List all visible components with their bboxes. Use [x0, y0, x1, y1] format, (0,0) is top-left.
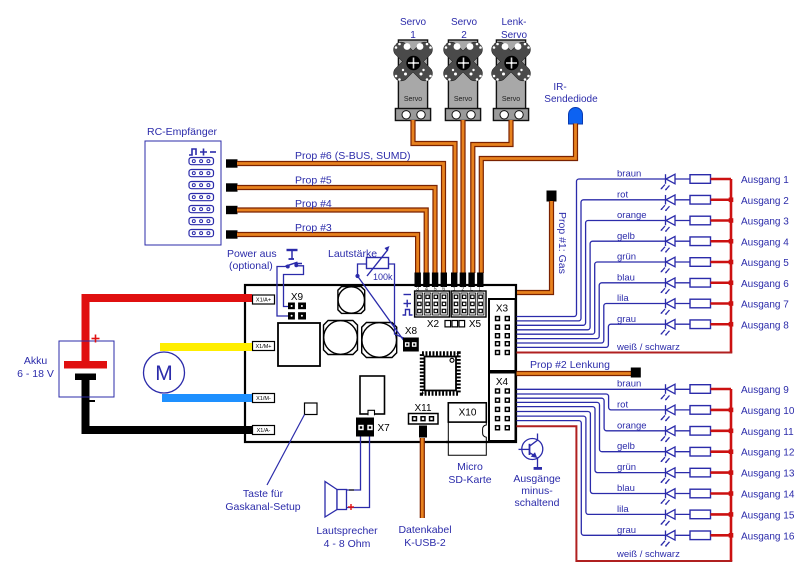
svg-text:Datenkabel: Datenkabel [398, 524, 451, 536]
wire R7 to bus [711, 302, 732, 305]
svg-text:6 - 18 V: 6 - 18 V [17, 368, 54, 380]
wire R11 to bus [711, 429, 732, 432]
servo SV1 (Servo 1) [391, 39, 435, 120]
plug Prop #2 [631, 368, 641, 378]
svg-text:X10: X10 [459, 408, 477, 419]
wire Prop #3 to header [237, 235, 418, 274]
label Lautsprecher 4 - 8 Ohm [316, 525, 378, 550]
junction bus row 3 [729, 218, 734, 223]
wire Prop #2 Lenkung [515, 371, 631, 376]
wire switch to X9 lower pin [277, 267, 288, 317]
plug Prop #1 [547, 191, 557, 202]
connector X9 [288, 303, 306, 320]
label Akku 6 - 18 V [17, 355, 54, 380]
wire servo 1 to X5 pin 1 [413, 120, 455, 273]
wire X3 to Ausgang 5 (grun) [517, 262, 691, 334]
connector X5 [451, 291, 486, 317]
LED D5 [661, 257, 675, 273]
junction bus row 11 [729, 429, 734, 434]
RC receiver box [145, 141, 221, 245]
plug K-USB-2 [419, 426, 427, 438]
resistor R2 [690, 195, 711, 204]
svg-text:grün: grün [617, 252, 636, 263]
three DIP squares [445, 321, 465, 327]
svg-text:RC-Empfänger: RC-Empfänger [147, 126, 218, 138]
wire servo 2 to X5 pin 2 [460, 120, 465, 273]
servo plug Prop #4 [226, 206, 238, 214]
servo plug Prop #3 [226, 230, 238, 238]
wire R15 to bus [711, 513, 732, 516]
svg-text:4 - 8 Ohm: 4 - 8 Ohm [324, 538, 371, 550]
svg-text:Servo: Servo [502, 96, 520, 103]
bus return group 2 [517, 389, 733, 561]
wire X3 to Ausgang 8 (grau) [517, 324, 691, 347]
svg-text:Ausgang 1: Ausgang 1 [741, 175, 789, 186]
svg-text:lila: lila [617, 293, 629, 304]
potentiometer R-Lautstärke 100k [367, 246, 390, 276]
wire Lenk-Servo to X5 pin L [473, 120, 511, 273]
svg-text:Ausgang 9: Ausgang 9 [741, 385, 789, 396]
svg-text:orange: orange [617, 420, 647, 431]
pin numbers 3 4 5 6 1 2 L L [416, 287, 482, 293]
junction bus row 12 [729, 449, 734, 454]
battery plus plate [64, 361, 107, 369]
power module U2 [278, 323, 320, 366]
LED D15 [661, 510, 675, 526]
wire battery minus to X1/A- (black) [86, 376, 253, 430]
wire X3 to Ausgang 4 (gelb) [517, 241, 691, 330]
svg-text:Ausgänge: Ausgänge [513, 473, 560, 485]
capacitor C2 [324, 321, 358, 355]
svg-text:Ausgang 12: Ausgang 12 [741, 448, 795, 459]
connector X2 [415, 291, 450, 317]
wire motor to X1/M- (blue) [162, 394, 252, 402]
wire R3 to bus [711, 219, 732, 222]
battery minus plate [75, 374, 96, 381]
LED D8 [661, 319, 675, 335]
servo plug row on X2/X5 header [415, 273, 484, 288]
junction bus row 7 [729, 301, 734, 306]
wire X7 to speaker minus [347, 437, 361, 491]
svg-text:grün: grün [617, 462, 636, 473]
wire R5 to bus [711, 261, 732, 264]
wire R10 to bus [711, 409, 732, 412]
svg-text:X7: X7 [378, 423, 391, 434]
LED D12 [661, 447, 675, 463]
microcontroller U1 [422, 354, 459, 394]
svg-text:Micro: Micro [457, 461, 483, 473]
connector X10 [448, 403, 486, 422]
terminal X1/M- [253, 394, 275, 403]
header polarity symbols - + pulse [403, 295, 413, 316]
wire X4 to Ausgang 11 (orange) [517, 398, 691, 431]
wire X4 to Ausgang 12 (gelb) [517, 402, 691, 451]
resistor R3 [690, 216, 711, 225]
svg-text:Servo: Servo [454, 96, 472, 103]
LED D14 [661, 489, 675, 505]
label Taste für Gaskanal-Setup [225, 488, 300, 513]
svg-text:Ausgang 13: Ausgang 13 [741, 469, 795, 480]
wire X4 to Ausgang 13 (grun) [517, 407, 691, 473]
wire pot left lead [358, 264, 367, 276]
svg-text:Sendediode: Sendediode [544, 94, 598, 105]
svg-text:X4: X4 [496, 377, 509, 388]
junction pot-left [355, 274, 359, 278]
svg-text:X1/M-: X1/M- [256, 396, 271, 402]
label Power aus (optional) [227, 248, 277, 272]
bus return group 1 [517, 179, 733, 353]
RC receiver channel sockets [189, 158, 214, 237]
connector X7 [356, 418, 374, 437]
LED D10 [661, 405, 675, 421]
svg-text:Ausgang 16: Ausgang 16 [741, 531, 795, 542]
svg-text:Gaskanal-Setup: Gaskanal-Setup [225, 501, 300, 513]
svg-text:gelb: gelb [617, 441, 635, 452]
label Ausgänge minus-schaltend [513, 473, 560, 509]
LED D2 [661, 195, 675, 211]
wire X4 to Ausgang 15 (lila) [517, 416, 691, 514]
terminal X1/M+ [253, 342, 275, 351]
svg-text:X8: X8 [405, 326, 418, 337]
svg-text:X3: X3 [496, 304, 509, 315]
ground symbol [534, 467, 542, 470]
svg-text:X5: X5 [469, 319, 482, 330]
resistor R11 [690, 427, 711, 436]
svg-text:100k: 100k [373, 272, 393, 282]
wire IR-Sendediode to X5 pin L [481, 124, 575, 274]
svg-text:Ausgang 10: Ausgang 10 [741, 406, 795, 417]
callout line Taste [267, 415, 305, 486]
LED D6 [661, 278, 675, 294]
wire Prop #6 to header [237, 164, 444, 274]
svg-text:rot: rot [617, 399, 628, 410]
svg-text:Taste für: Taste für [243, 488, 284, 500]
label Lenk-Servo [501, 17, 528, 41]
wire X4 to Ausgang 9 (braun) [517, 388, 691, 390]
svg-text:Power aus: Power aus [227, 248, 277, 260]
svg-text:SD-Karte: SD-Karte [448, 474, 491, 486]
wire X4 to Ausgang 16 (grau) [517, 421, 691, 536]
svg-text:X9: X9 [291, 292, 304, 303]
wire R16 to bus [711, 534, 732, 537]
resistor R8 [690, 320, 711, 329]
svg-text:orange: orange [617, 210, 647, 221]
terminal X1/A+ [253, 295, 275, 304]
resistor R1 [690, 175, 711, 184]
wire R12 to bus [711, 450, 732, 453]
svg-text:Ausgang 8: Ausgang 8 [741, 320, 789, 331]
svg-text:Ausgang 5: Ausgang 5 [741, 258, 789, 269]
wire pot to X8 pin 1 [358, 276, 405, 342]
svg-text:Servo: Servo [400, 17, 427, 28]
terminal X1/A- [253, 426, 275, 435]
wire Datenkabel K-USB-2 [420, 438, 425, 518]
svg-text:lila: lila [617, 504, 629, 515]
wire X4 to Ausgang 14 (blau) [517, 412, 691, 494]
LED D13 [661, 468, 675, 484]
speaker plus mark [348, 504, 354, 510]
svg-text:grau: grau [617, 525, 636, 536]
battery minus sign [89, 400, 96, 402]
svg-text:Prop #4: Prop #4 [295, 198, 332, 210]
svg-text:weiß / schwarz: weiß / schwarz [616, 342, 680, 353]
resistor R4 [690, 237, 711, 246]
wire pot to X8 pin 2 [389, 264, 412, 342]
svg-text:gelb: gelb [617, 231, 635, 242]
wire X3 to Ausgang 6 (blau) [517, 283, 691, 339]
label Datenkabel K-USB-2 [398, 524, 451, 549]
resistor R5 [690, 258, 711, 267]
pushbutton Taste [305, 403, 318, 415]
LED D11 [661, 426, 675, 442]
junction bus row 2 [729, 197, 734, 202]
speaker minus mark [349, 489, 354, 491]
svg-text:Akku: Akku [24, 355, 48, 367]
svg-text:Ausgang 3: Ausgang 3 [741, 217, 789, 228]
LED IR-Sendediode [569, 108, 583, 125]
wire R8 to bus [711, 323, 732, 326]
switch S1 Power aus [286, 250, 303, 268]
wire R2 to bus [711, 198, 732, 201]
resistor R10 [690, 406, 711, 415]
LED D1 [661, 174, 675, 190]
transistor Q1 (Ausgänge minus-schaltend) [519, 434, 543, 468]
LED D9 [661, 384, 675, 400]
svg-text:Prop #2 Lenkung: Prop #2 Lenkung [530, 359, 610, 371]
servo plug Prop #5 [226, 183, 238, 191]
svg-text:Ausgang 14: Ausgang 14 [741, 490, 795, 501]
resistor R6 [690, 278, 711, 287]
label Servo 1 [400, 17, 427, 41]
svg-text:Ausgang 4: Ausgang 4 [741, 237, 789, 248]
svg-text:Servo: Servo [404, 96, 422, 103]
wire X3 to Ausgang 7 (lila) [517, 304, 691, 344]
capacitor C1 [338, 287, 365, 314]
main controller board outline [245, 285, 516, 442]
svg-text:minus-: minus- [521, 485, 553, 497]
label Micro SD-Karte [448, 461, 491, 486]
connector X4 [489, 373, 516, 442]
resistor R16 [690, 531, 711, 540]
svg-text:Prop #1: Gas: Prop #1: Gas [556, 212, 568, 274]
wire Prop #5 to header [237, 188, 435, 274]
svg-text:M: M [155, 362, 173, 385]
junction bus row 16 [729, 533, 734, 538]
capacitor C3 [362, 323, 397, 358]
svg-text:X1/A+: X1/A+ [256, 298, 271, 304]
battery plus sign [92, 335, 100, 343]
resistor R14 [690, 489, 711, 498]
junction bus row 6 [729, 280, 734, 285]
wire R14 to bus [711, 492, 732, 495]
svg-text:grau: grau [617, 314, 636, 325]
svg-text:Ausgang 11: Ausgang 11 [741, 427, 794, 438]
servo plug Prop #6 [226, 159, 238, 167]
svg-text:Prop #3: Prop #3 [295, 222, 332, 234]
wire R1 to bus [711, 178, 732, 181]
servo SV3 (Lenk-Servo) [489, 39, 533, 120]
svg-text:Lautsprecher: Lautsprecher [316, 525, 378, 537]
connector X11 [409, 414, 439, 425]
wire R6 to bus [711, 281, 732, 284]
resistor R7 [690, 299, 711, 308]
svg-text:blau: blau [617, 272, 635, 283]
resistor R13 [690, 468, 711, 477]
svg-text:rot: rot [617, 189, 628, 200]
speaker LS1 [325, 482, 347, 518]
battery Akku box [59, 341, 114, 397]
label IR-Sendediode [544, 82, 598, 105]
wire X4 to Ausgang 10 (rot) [517, 394, 691, 410]
svg-text:IR-: IR- [553, 82, 566, 93]
wire motor to X1/M+ (yellow) [160, 343, 252, 351]
resistor R12 [690, 447, 711, 456]
wire R4 to bus [711, 240, 732, 243]
LED D4 [661, 236, 675, 252]
wire X7 to speaker plus [347, 437, 370, 508]
junction bus row 10 [729, 408, 734, 413]
wire X3 to Ausgang 1 (braun) [517, 179, 691, 317]
motor M1 [144, 352, 185, 393]
junction bus row 14 [729, 491, 734, 496]
svg-text:X1/A-: X1/A- [257, 428, 271, 434]
resistor R9 [690, 385, 711, 394]
wire Prop #1 Gas [517, 201, 552, 293]
connector X8 [403, 338, 419, 352]
wire Prop #4 to header [237, 210, 426, 273]
junction bus row 5 [729, 260, 734, 265]
svg-text:braun: braun [617, 379, 641, 390]
svg-text:(optional): (optional) [229, 260, 273, 272]
wire X3 to Ausgang 3 (orange) [517, 221, 691, 326]
svg-text:Ausgang 2: Ausgang 2 [741, 196, 789, 207]
svg-text:Servo: Servo [451, 17, 478, 28]
wire X3 to Ausgang 2 (rot) [517, 200, 691, 321]
svg-text:K-USB-2: K-USB-2 [404, 537, 446, 549]
svg-text:X1/M+: X1/M+ [255, 344, 271, 350]
resistor R15 [690, 510, 711, 519]
svg-text:blau: blau [617, 483, 635, 494]
junction bus row 13 [729, 470, 734, 475]
svg-text:X11: X11 [414, 403, 431, 414]
svg-text:Lenk-: Lenk- [501, 17, 526, 28]
wire R13 to bus [711, 471, 732, 474]
svg-text:X2: X2 [427, 319, 440, 330]
junction bus row 8 [729, 322, 734, 327]
junction bus row 15 [729, 512, 734, 517]
svg-text:Ausgang 7: Ausgang 7 [741, 300, 789, 311]
label Servo 2 [451, 17, 478, 41]
LED D16 [661, 531, 675, 547]
junction bus row 4 [729, 239, 734, 244]
wire switch to X9 upper pin [284, 266, 304, 307]
wire R9 to bus [711, 388, 732, 391]
SD card outline [446, 403, 487, 456]
wire battery plus to X1/A+ (red) [86, 298, 253, 364]
relay K1 [360, 376, 385, 415]
svg-text:schaltend: schaltend [515, 497, 560, 509]
RC receiver pin symbols (pulse + -) [189, 149, 216, 156]
svg-text:Ausgang 15: Ausgang 15 [741, 510, 795, 521]
servo SV2 (Servo 2) [441, 39, 485, 120]
svg-text:Ausgang 6: Ausgang 6 [741, 279, 789, 290]
LED D3 [661, 216, 675, 232]
connector X3 [489, 299, 516, 371]
svg-text:Prop #5: Prop #5 [295, 175, 332, 187]
LED D7 [661, 299, 675, 315]
svg-text:braun: braun [617, 169, 641, 180]
svg-text:weiß / schwarz: weiß / schwarz [616, 549, 680, 560]
svg-text:Prop #6 (S-BUS, SUMD): Prop #6 (S-BUS, SUMD) [295, 150, 411, 162]
